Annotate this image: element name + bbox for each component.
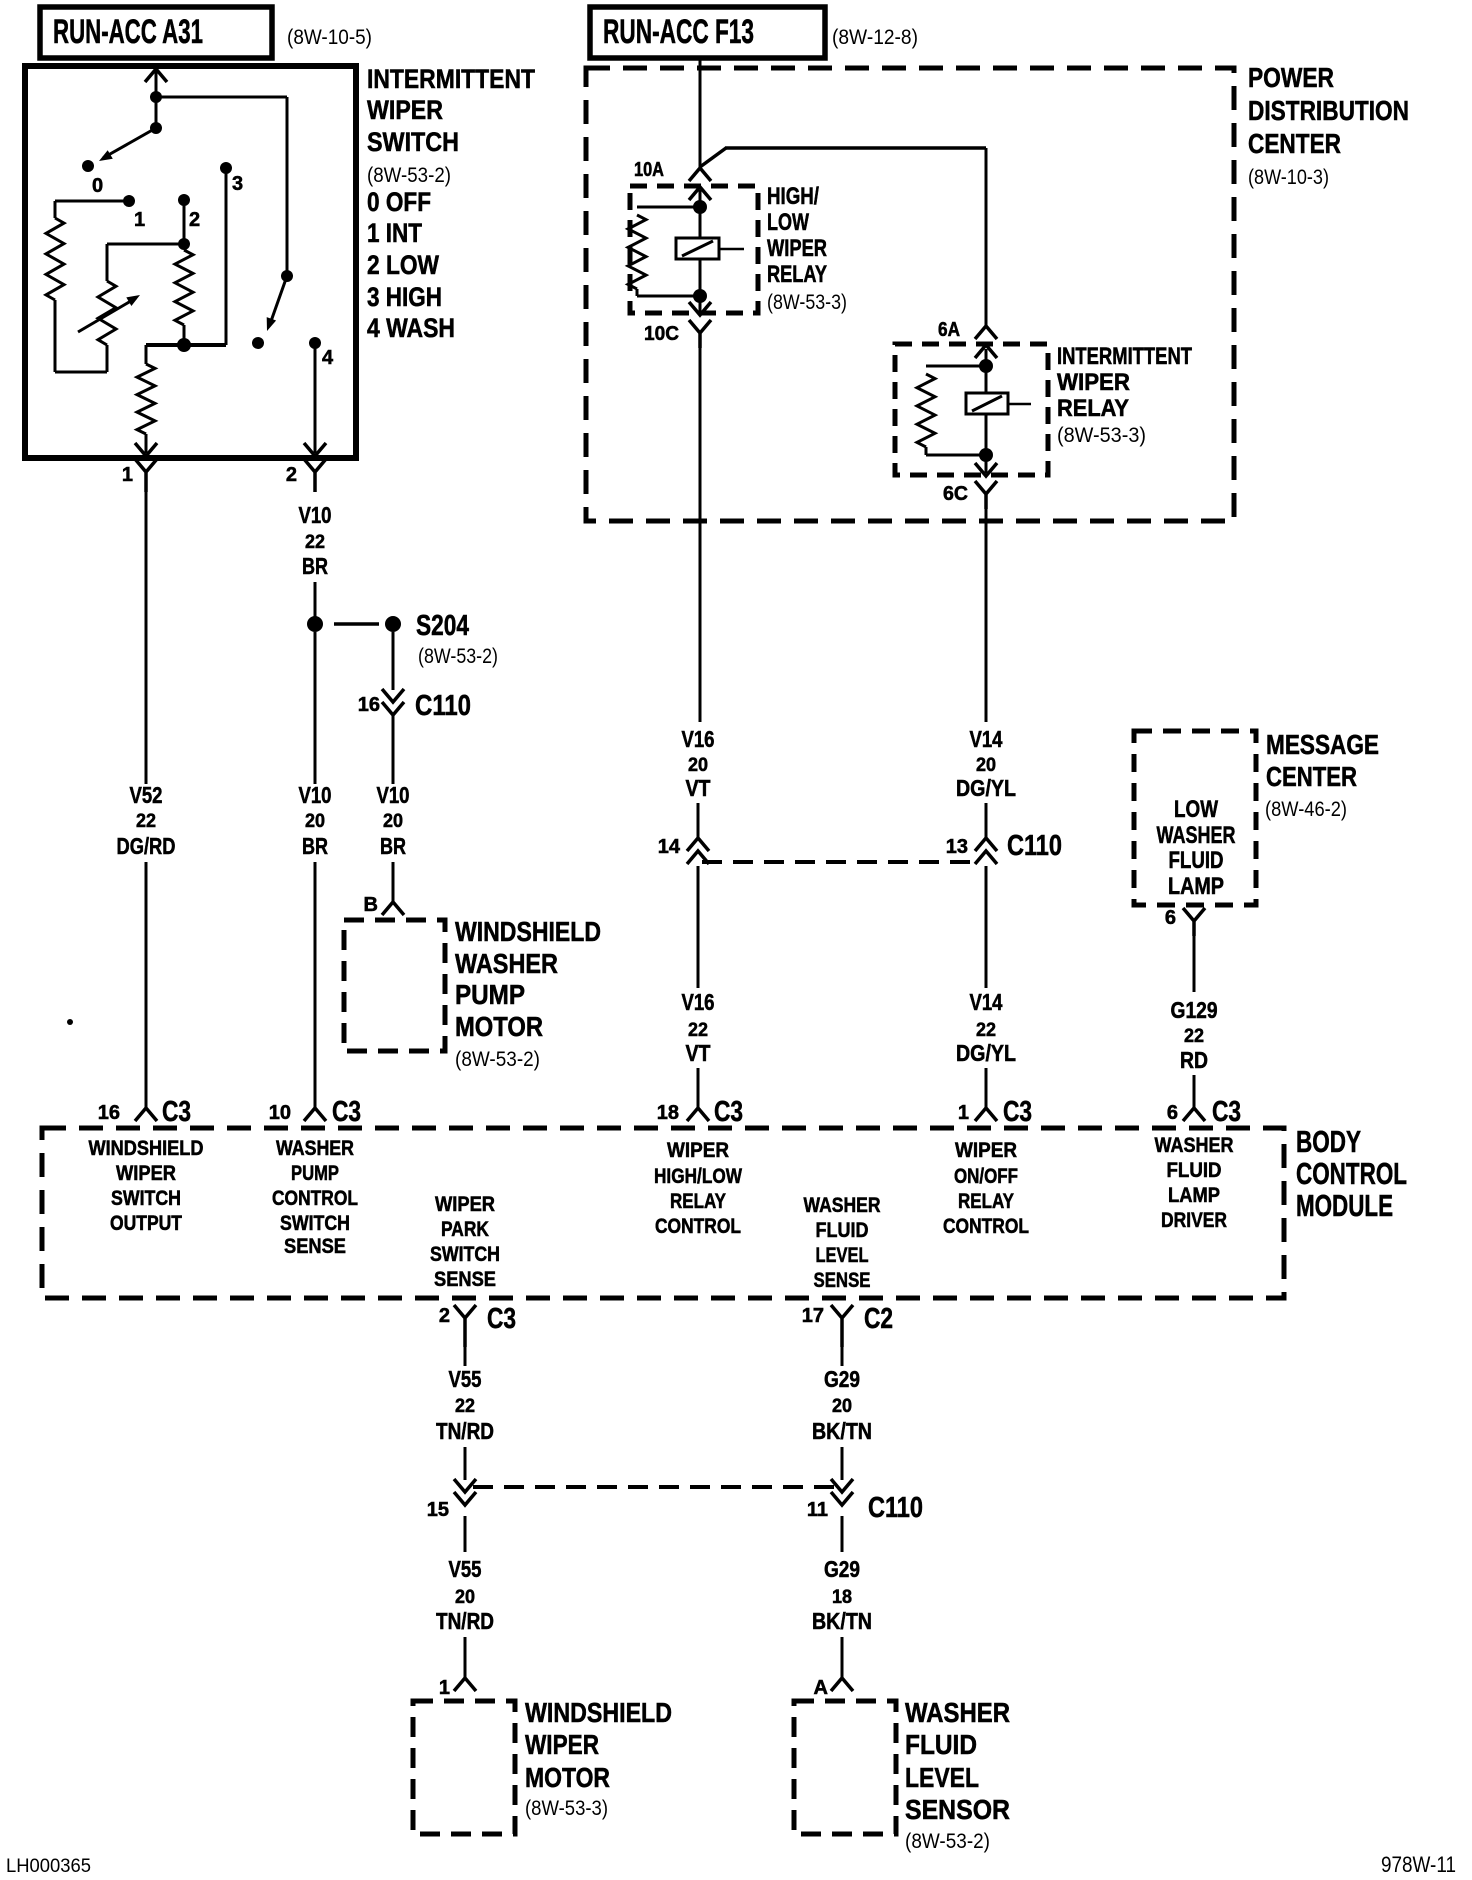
svg-text:CONTROL: CONTROL [655,1215,741,1238]
svg-text:6: 6 [1167,1102,1178,1124]
label BODY CONTROL MODULE [1296,1124,1407,1223]
switch pin 1 exit arrow [135,443,157,456]
svg-text:0: 0 [92,175,103,197]
svg-text:SENSE: SENSE [434,1268,496,1291]
wire label V10 20 BR left [299,782,332,859]
svg-text:MOTOR: MOTOR [525,1762,610,1793]
connector 6C [943,481,997,509]
svg-text:TN/RD: TN/RD [436,1418,494,1444]
svg-text:G29: G29 [824,1556,860,1582]
svg-text:FLUID: FLUID [1169,847,1224,874]
wire V16 to C110 pin 14 [697,803,700,838]
contact lower common [252,337,264,349]
label WASHER FLUID LEVEL SENSOR [905,1697,1010,1853]
svg-text:WINDSHIELD: WINDSHIELD [89,1137,204,1160]
label 978W-11 [1381,1852,1456,1877]
svg-text:RELAY: RELAY [767,261,827,288]
svg-text:3 HIGH: 3 HIGH [367,282,442,312]
svg-text:0 OFF: 0 OFF [367,187,431,217]
svg-text:A: A [814,1677,828,1699]
label S204 [416,610,498,668]
wire label V55 20 TN/RD [436,1556,494,1634]
wire C110-14 down [697,866,700,988]
svg-text:LEVEL: LEVEL [905,1762,979,1793]
svg-text:DG/YL: DG/YL [956,1040,1016,1066]
svg-text:22: 22 [688,1020,708,1041]
BCM C3 pin 6 [1167,1096,1241,1128]
node junction A [150,91,162,103]
contact 3 HIGH [220,162,232,174]
relay K1 entry chevron [689,187,711,296]
wire V14 to C3 pin 1 [985,1068,988,1108]
svg-text:1: 1 [958,1102,969,1124]
label wiper high/low relay control [654,1139,742,1238]
high/low wiper relay K1 enclosure [630,186,758,313]
svg-text:22: 22 [305,532,325,553]
svg-text:20: 20 [832,1396,852,1417]
svg-text:2: 2 [189,209,200,231]
wire C110-11 down [841,1516,844,1552]
connector C110 pin 13 [946,830,1062,864]
svg-text:(8W-12-8): (8W-12-8) [832,26,918,49]
svg-text:4: 4 [322,347,334,369]
svg-text:G129: G129 [1171,997,1218,1023]
wire S204 right leg [392,632,395,690]
svg-text:MODULE: MODULE [1296,1188,1393,1223]
svg-text:FLUID: FLUID [1167,1159,1222,1182]
svg-text:RELAY: RELAY [958,1190,1014,1213]
intermittent wiper switch S1 enclosure [25,66,356,458]
svg-text:SENSE: SENSE [814,1269,871,1292]
relay K1 contact [676,238,744,259]
svg-text:4 WASH: 4 WASH [367,313,455,343]
svg-text:C3: C3 [162,1096,191,1128]
wire contact 3 down [225,168,228,345]
svg-text:C2: C2 [864,1303,893,1335]
svg-text:PUMP: PUMP [455,979,525,1010]
label 0 [92,175,103,197]
svg-text:(8W-53-3): (8W-53-3) [1057,424,1146,447]
svg-text:V14: V14 [970,726,1003,752]
connector MC pin 6 [1165,907,1205,936]
svg-text:DG/RD: DG/RD [117,833,176,859]
svg-text:C3: C3 [332,1096,361,1128]
svg-text:WIPER: WIPER [525,1729,599,1760]
power distribution center enclosure [586,68,1234,521]
intermittent wiper relay K2 enclosure [895,344,1048,475]
windshield washer pump motor M1 enclosure [344,920,445,1051]
svg-text:WIPER: WIPER [435,1193,495,1216]
svg-text:OUTPUT: OUTPUT [110,1212,182,1235]
svg-text:VT: VT [686,1040,711,1066]
wire V55 upper [464,1347,467,1366]
svg-text:POWER: POWER [1248,62,1334,93]
svg-text:16: 16 [98,1102,120,1124]
svg-text:6C: 6C [943,483,968,505]
wire VR1 top to junction F [107,244,184,281]
washer fluid level sensor enclosure [794,1701,896,1834]
wire G29 to fluid level sensor [841,1637,844,1678]
BCM C3 pin 18 [657,1096,743,1128]
svg-text:(8W-53-2): (8W-53-2) [455,1048,540,1071]
svg-text:20: 20 [305,811,325,832]
connector pin B [364,894,404,916]
label WINDSHIELD WIPER MOTOR [525,1697,672,1820]
svg-text:HIGH/LOW: HIGH/LOW [654,1165,742,1188]
wire label V10 20 BR right [377,782,410,859]
svg-text:(8W-46-2): (8W-46-2) [1265,798,1347,821]
node junction E [177,338,191,352]
svg-text:WINDSHIELD: WINDSHIELD [455,916,601,947]
svg-text:WIPER: WIPER [955,1139,1017,1162]
BCM C3 pin 1 [958,1096,1032,1128]
svg-text:RELAY: RELAY [670,1190,726,1213]
svg-text:SWITCH: SWITCH [367,127,459,157]
svg-text:1 INT: 1 INT [367,218,422,248]
label INTERMITTENT WIPER SWITCH header [367,64,535,343]
relay K1 coil [628,207,700,296]
svg-text:V10: V10 [377,782,410,808]
label HIGH/LOW WIPER RELAY [767,183,847,314]
connector C110 lower halves link [473,1485,836,1489]
label WINDSHIELD WASHER PUMP MOTOR [455,916,601,1071]
relay K2 coil [917,366,986,455]
svg-text:(8W-53-2): (8W-53-2) [367,164,451,187]
svg-text:SWITCH: SWITCH [111,1187,181,1210]
svg-text:BR: BR [380,833,406,859]
switch wiper arm lower [267,270,293,331]
contact 4 WASH [309,337,321,349]
relay K2 exit arrow [975,455,997,476]
svg-text:WASHER: WASHER [455,948,558,979]
svg-text:978W-11: 978W-11 [1381,1852,1456,1877]
svg-text:LEVEL: LEVEL [816,1244,869,1267]
label 3 [232,173,243,195]
switch pin 2 connector [286,459,326,492]
node junction B [150,122,162,134]
switch pin 2 exit arrow [304,443,326,456]
wire switch feed entry [145,68,167,128]
svg-text:2 LOW: 2 LOW [367,250,439,280]
node K1 top junction [693,200,707,214]
wire label V16 22 VT [682,989,715,1066]
BCM C3 pin 16 [98,1096,191,1128]
wire label V14 20 DG/YL [956,726,1016,801]
svg-text:PARK: PARK [441,1218,489,1241]
label LH000365 [6,1856,91,1877]
svg-text:(8W-53-2): (8W-53-2) [418,645,498,668]
svg-text:6A: 6A [938,319,960,341]
wire label V55 22 TN/RD [436,1366,494,1444]
svg-text:V10: V10 [299,782,332,808]
wire G129 to C3 pin 6 [1193,1075,1196,1108]
wire F13 feed down [699,57,702,168]
svg-text:(8W-10-3): (8W-10-3) [1248,166,1329,189]
connector sensor pin A [814,1677,853,1699]
svg-text:(8W-53-2): (8W-53-2) [905,1830,990,1853]
wire junction A to high contact [156,97,287,276]
contact 2 LOW [178,194,190,206]
connector 10A male pin [689,168,711,181]
BCM C2 pin 17 [802,1303,893,1347]
windshield wiper motor M2 enclosure [413,1701,515,1834]
variable resistor VR1 [78,281,140,345]
wire to washer pump pin B [392,862,395,902]
contact 1 INT [123,195,135,207]
svg-text:WIPER: WIPER [1057,369,1130,396]
svg-text:C3: C3 [487,1303,516,1335]
resistor R3 [137,345,155,453]
body control module enclosure [42,1128,1284,1298]
svg-text:V55: V55 [449,1556,482,1582]
wire label G29 18 BK/TN [812,1556,872,1634]
wire G29 upper [841,1347,844,1366]
svg-text:MOTOR: MOTOR [455,1011,543,1042]
svg-text:CONTROL: CONTROL [1296,1156,1407,1191]
svg-text:10C: 10C [644,323,679,345]
svg-text:C3: C3 [1212,1096,1241,1128]
relay K2 entry chevron [975,345,997,455]
label 10A [634,159,664,181]
label wiper on/off relay control [943,1139,1029,1238]
svg-text:WIPER: WIPER [667,1139,729,1162]
svg-text:16: 16 [358,694,380,716]
svg-text:15: 15 [427,1499,449,1521]
svg-text:RUN-ACC F13: RUN-ACC F13 [603,13,754,51]
svg-text:13: 13 [946,836,968,858]
svg-text:22: 22 [976,1020,996,1041]
wire R1 bottom U to variable resistor [55,300,107,372]
svg-text:CENTER: CENTER [1266,761,1357,792]
label (8W-12-8) [832,26,918,49]
svg-text:FLUID: FLUID [816,1219,869,1242]
wire contact 1 to resistor R1 [55,201,129,218]
label 4 [322,347,334,369]
wire S204 left leg down [314,632,317,784]
label 1 [134,209,145,231]
svg-text:WASHER: WASHER [804,1194,881,1217]
svg-text:WASHER: WASHER [905,1697,1010,1728]
svg-text:20: 20 [688,755,708,776]
svg-text:(8W-10-5): (8W-10-5) [287,26,372,49]
svg-text:C3: C3 [714,1096,743,1128]
wire V55 to wiper motor [464,1637,467,1678]
svg-text:V14: V14 [970,989,1003,1015]
svg-text:18: 18 [657,1102,679,1124]
connector C110 pin 16 [358,689,471,722]
svg-text:BODY: BODY [1296,1124,1361,1159]
svg-text:BK/TN: BK/TN [812,1608,872,1634]
svg-text:WASHER: WASHER [1157,822,1236,849]
svg-text:2: 2 [286,464,297,486]
resistor R1 [46,218,64,300]
svg-text:WIPER: WIPER [767,235,827,262]
label windshield wiper switch output [89,1137,204,1235]
wire G129 upper [1193,936,1196,992]
svg-text:20: 20 [455,1587,475,1608]
svg-text:DISTRIBUTION: DISTRIBUTION [1248,95,1409,126]
wire V16 to C3 pin 18 [697,1068,700,1108]
connector C110 pin 14 [658,836,709,864]
label wiper park switch sense [430,1193,500,1291]
svg-text:C110: C110 [1007,830,1062,862]
wire C110-16 down [392,716,395,784]
svg-text:WIPER: WIPER [367,95,443,125]
label 2 [189,209,200,231]
svg-text:22: 22 [136,811,156,832]
wire label V16 20 VT [682,726,715,801]
svg-text:DG/YL: DG/YL [956,775,1016,801]
svg-text:C3: C3 [1003,1096,1032,1128]
svg-text:MESSAGE: MESSAGE [1266,729,1379,760]
wire V10 to splice [314,582,317,617]
svg-text:22: 22 [455,1396,475,1417]
connector 10C [644,320,711,348]
svg-text:1: 1 [122,464,133,486]
svg-text:PUMP: PUMP [291,1162,339,1185]
svg-text:11: 11 [807,1499,828,1521]
svg-text:22: 22 [1184,1026,1204,1047]
wire V55 to C110 pin 15 [464,1447,467,1480]
svg-text:17: 17 [802,1305,824,1327]
svg-text:INTERMITTENT: INTERMITTENT [1057,343,1192,370]
svg-text:WIPER: WIPER [116,1162,176,1185]
node junction F [178,238,190,250]
label washer pump control switch sense [272,1137,358,1258]
node K2 top junction [979,359,993,373]
svg-text:ON/OFF: ON/OFF [954,1165,1018,1188]
wire label V14 22 DG/YL [956,989,1016,1066]
relay K1 exit arrow [689,296,711,315]
wire contact 4 down [314,343,317,453]
svg-text:SENSOR: SENSOR [905,1794,1010,1825]
label (8W-10-5) [287,26,372,49]
svg-text:LH000365: LH000365 [6,1856,91,1877]
svg-text:20: 20 [383,811,403,832]
svg-text:10: 10 [269,1102,291,1124]
svg-text:1: 1 [439,1677,450,1699]
node RUN-ACC F13 feed box [590,7,825,58]
svg-text:6: 6 [1165,907,1176,929]
svg-text:RELAY: RELAY [1057,395,1129,422]
svg-text:DRIVER: DRIVER [1161,1209,1227,1232]
svg-text:BK/TN: BK/TN [812,1418,872,1444]
svg-text:S204: S204 [416,610,469,642]
svg-text:B: B [364,894,378,916]
connector C110 halves link [702,860,974,864]
relay K2 contact [966,393,1031,414]
svg-text:RUN-ACC A31: RUN-ACC A31 [53,13,203,51]
message center enclosure [1134,731,1256,905]
wire label G129 22 RD [1171,997,1218,1073]
node K1 bottom junction [693,289,707,303]
BCM C3 pin 2 [439,1303,516,1347]
contact 0 OFF [82,160,94,172]
wire label V52 22 DG/RD [117,782,176,859]
svg-text:LAMP: LAMP [1168,873,1224,900]
wire 10C down to C3 pin 18 [699,348,702,722]
svg-text:TN/RD: TN/RD [436,1608,494,1634]
node K2 bottom junction [979,448,993,462]
label INTERMITTENT WIPER RELAY [1057,343,1192,447]
BCM C3 pin 10 [269,1096,361,1128]
label washer fluid level sense [804,1194,881,1292]
svg-text:FLUID: FLUID [905,1729,977,1760]
stray scan mark [67,1019,73,1025]
svg-text:18: 18 [832,1587,852,1608]
wire label G29 20 BK/TN [812,1366,872,1444]
switch pin 1 connector [122,459,157,492]
splice S204 [307,616,401,632]
svg-text:WASHER: WASHER [1155,1134,1234,1157]
wire contact 2 down [183,200,186,244]
wire V52 from switch pin 1 [145,487,148,784]
wire G29 to C110 pin 11 [841,1447,844,1480]
wire V10 lower to C3 pin 10 [314,862,317,1108]
wire V14 to C110 pin 13 [985,803,988,838]
svg-text:SWITCH: SWITCH [280,1212,350,1235]
svg-text:V16: V16 [682,726,715,752]
svg-text:V55: V55 [449,1366,482,1392]
switch wiper arm upper [99,128,156,161]
svg-text:SENSE: SENSE [284,1235,346,1258]
label MESSAGE CENTER [1265,729,1379,821]
svg-text:C110: C110 [415,690,471,722]
node RUN-ACC A31 feed box [40,7,272,58]
svg-text:VT: VT [686,775,711,801]
svg-text:LOW: LOW [1174,796,1218,823]
wire junction E bus [146,343,226,347]
svg-text:3: 3 [232,173,243,195]
resistor R2 [175,250,193,345]
svg-text:BR: BR [302,553,328,579]
svg-text:RD: RD [1180,1047,1208,1073]
svg-text:LAMP: LAMP [1168,1184,1220,1207]
svg-text:G29: G29 [824,1366,860,1392]
svg-text:10A: 10A [634,159,664,181]
connector 6A male pin [975,326,997,339]
svg-text:V52: V52 [130,782,163,808]
svg-text:HIGH/: HIGH/ [767,183,819,210]
low washer fluid lamp [1157,796,1236,900]
svg-text:CONTROL: CONTROL [943,1215,1029,1238]
svg-text:INTERMITTENT: INTERMITTENT [367,64,535,94]
svg-text:SWITCH: SWITCH [430,1243,500,1266]
label washer fluid lamp driver [1155,1134,1234,1232]
svg-text:14: 14 [658,836,681,858]
svg-text:1: 1 [134,209,145,231]
connector wiper motor pin 1 [439,1677,476,1699]
svg-text:(8W-53-3): (8W-53-3) [767,291,847,314]
wire label V10 22 BR [299,502,332,579]
svg-text:WASHER: WASHER [276,1137,354,1160]
svg-text:BR: BR [302,833,328,859]
svg-text:2: 2 [439,1305,450,1327]
svg-text:CONTROL: CONTROL [272,1187,358,1210]
svg-text:CENTER: CENTER [1248,128,1341,159]
wire branch to 6A [700,148,986,325]
svg-text:(8W-53-3): (8W-53-3) [525,1797,608,1820]
wire C110-15 down [464,1516,467,1552]
label 6A [938,319,960,341]
wire C110-13 down [985,866,988,988]
connector C110 pin 15 [427,1479,476,1521]
svg-text:20: 20 [976,755,996,776]
svg-text:LOW: LOW [767,209,809,236]
svg-text:WINDSHIELD: WINDSHIELD [525,1697,672,1728]
svg-text:C110: C110 [868,1492,923,1524]
connector C110 pin 11 [807,1479,923,1524]
